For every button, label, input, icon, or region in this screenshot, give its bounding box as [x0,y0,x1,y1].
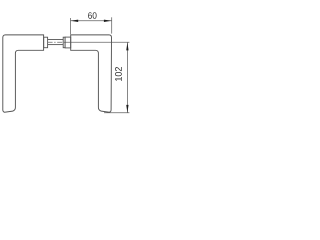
dim 102: bottom arrow (down) [126,105,128,113]
dim 102: bottom extension line [104,112,129,114]
centre axis extension to 102 dim [66,41,130,43]
dim 60: label [88,12,96,19]
dim 60: dimension line [71,20,112,22]
dim 60: left extension line [70,18,72,34]
dim 60: right arrow [104,20,112,22]
left collar [44,37,48,48]
spindle centre line (dash-dot) [48,41,66,43]
spindle top edge [48,39,63,41]
dim 60: left arrow [71,20,79,22]
dim 60: right extension line [111,17,113,33]
left handle outline [3,35,44,112]
dim 102: top arrow (up) [126,42,128,50]
dim 102: dimension line [126,43,128,113]
right hub [65,37,71,48]
dim 102: label (rotated) [115,67,122,81]
right handle outline [71,35,112,112]
right collar [63,37,65,48]
spindle bottom edge [48,44,63,46]
